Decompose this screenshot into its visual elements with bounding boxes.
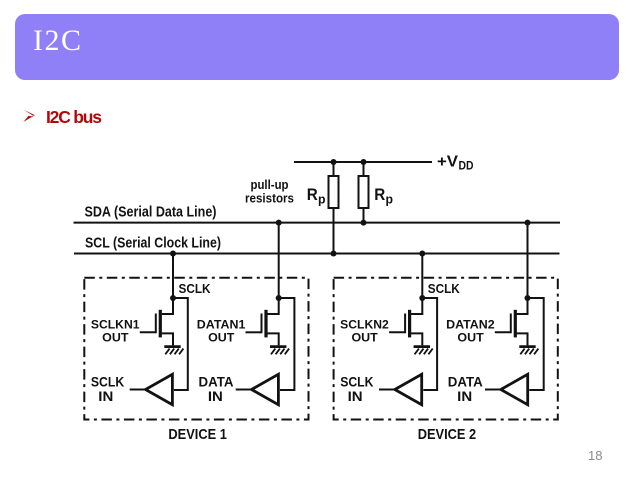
wire elbow to buffer B1	[173, 298, 188, 390]
label SCLK IN dev2	[340, 375, 374, 405]
label SCLKN2 OUT	[340, 318, 389, 345]
svg-text:IN: IN	[348, 389, 363, 404]
svg-text:DATA: DATA	[448, 375, 483, 390]
label SCLKN1 OUT	[91, 318, 140, 345]
svg-text:OUT: OUT	[102, 330, 129, 344]
svg-text:DD: DD	[459, 161, 474, 173]
device 1 dashed box	[84, 278, 308, 420]
wire SDA bus	[74, 222, 561, 224]
wire elbow to buffer B4	[528, 298, 544, 390]
svg-text:DEVICE 1: DEVICE 1	[168, 426, 227, 443]
node dot SCLK-T3	[419, 295, 425, 301]
svg-text:p: p	[386, 192, 394, 207]
ground G1	[164, 347, 183, 355]
node dot Rp2-SDA	[361, 220, 367, 226]
node dot Rp1-SCL	[331, 251, 337, 257]
wire B3 output	[379, 389, 395, 391]
label pull-up resistors	[245, 178, 294, 205]
svg-text:OUT: OUT	[457, 330, 484, 344]
wire elbow to buffer B2	[279, 298, 295, 390]
node dot SCL drop	[170, 251, 176, 257]
buffer B3	[395, 374, 422, 404]
wire B1 output	[130, 389, 146, 391]
title banner	[15, 14, 619, 80]
svg-text:IN: IN	[98, 389, 113, 404]
svg-text:SCLK: SCLK	[91, 375, 125, 390]
svg-text:R: R	[374, 185, 385, 204]
svg-text:SCL (Serial Clock Line): SCL (Serial Clock Line)	[85, 235, 221, 252]
buffer B4	[501, 374, 528, 404]
transistor Q1 (SCLKN1)	[140, 298, 173, 345]
label DATAN2 OUT	[446, 318, 495, 345]
ground G4	[519, 347, 538, 355]
node dot SCLK-T1	[170, 295, 176, 301]
svg-text:p: p	[318, 192, 326, 207]
resistor Rp1	[329, 162, 339, 254]
node dot DATA-T2	[276, 295, 282, 301]
svg-text:SCLK: SCLK	[340, 375, 374, 390]
svg-text:DEVICE 2: DEVICE 2	[418, 426, 477, 443]
transistor Q4 (DATAN2)	[495, 298, 528, 345]
node dot SDA drop	[276, 220, 282, 226]
node dot SCL drop dev2	[419, 251, 425, 257]
ground G2	[270, 347, 289, 355]
node dot DATA-T4	[525, 295, 531, 301]
wire SCLK drop from SCL	[172, 254, 174, 299]
svg-text:SCLK: SCLK	[179, 281, 212, 296]
wire DATA drop from SDA	[278, 223, 280, 298]
svg-text:OUT: OUT	[208, 330, 235, 344]
buffer B2	[252, 374, 279, 404]
svg-text:resistors: resistors	[245, 191, 294, 205]
label DATAN1 OUT	[197, 318, 246, 345]
label DATA IN dev2	[448, 375, 483, 405]
label Rp1	[307, 185, 326, 207]
svg-text:IN: IN	[208, 389, 223, 404]
DEVICE 2 group	[334, 220, 558, 444]
wire B2 output	[236, 389, 252, 391]
device 2 dashed box	[334, 278, 558, 420]
wire elbow to buffer B3	[422, 298, 437, 390]
svg-text:+V: +V	[437, 154, 458, 171]
label +VDD	[437, 154, 474, 173]
node dot Rp2-VDD	[361, 159, 367, 165]
svg-text:SCLK: SCLK	[428, 281, 461, 296]
node dot SDA drop dev2	[525, 220, 531, 226]
svg-text:DATA: DATA	[199, 375, 234, 390]
bullet text: I2C bus	[46, 107, 101, 128]
wire VDD rail	[294, 161, 432, 163]
transistor Q2 (DATAN1)	[246, 298, 279, 345]
transistor Q3 (SCLKN2)	[389, 298, 422, 345]
buffer B1	[146, 374, 173, 404]
bullet arrow	[22, 108, 38, 124]
DEVICE 1 group	[84, 220, 308, 444]
label SCLK IN	[91, 375, 125, 405]
wire SCLK drop from SCL	[421, 254, 423, 299]
label Rp2	[374, 185, 393, 207]
svg-text:R: R	[307, 185, 318, 204]
wire B4 output	[485, 389, 501, 391]
svg-text:SDA (Serial Data Line): SDA (Serial Data Line)	[85, 203, 217, 220]
page number	[588, 448, 602, 463]
svg-text:pull-up: pull-up	[251, 178, 289, 192]
ground G3	[414, 347, 433, 355]
wire SCL bus	[74, 253, 560, 255]
svg-text:IN: IN	[457, 389, 472, 404]
resistor Rp2	[359, 162, 369, 223]
node dot Rp1-VDD	[331, 159, 337, 165]
svg-text:OUT: OUT	[352, 330, 379, 344]
wire DATA drop from SDA dev2	[527, 223, 529, 298]
label DATA IN	[199, 375, 234, 405]
